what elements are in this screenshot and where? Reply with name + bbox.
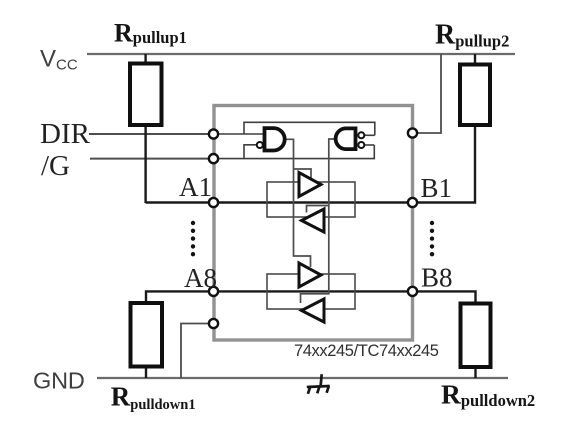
pin A1 bbox=[209, 198, 218, 207]
resistor Rpullup2 bbox=[460, 65, 490, 126]
wire enable line from G2 (right control) bbox=[301, 139, 335, 303]
wire /G riser to gate G1 input bbox=[244, 145, 256, 159]
resistor Rpulldown2 bbox=[461, 304, 491, 368]
svg-text:A8: A8 bbox=[184, 263, 217, 293]
svg-text:B8: B8 bbox=[421, 263, 453, 293]
gate G2 input bubble bottom bbox=[358, 142, 364, 148]
svg-text:Rpullup1: Rpullup1 bbox=[114, 18, 187, 47]
wire /G input bbox=[90, 158, 214, 160]
svg-text:B1: B1 bbox=[421, 173, 453, 203]
wire enable line from G1 (left control) bbox=[285, 139, 311, 267]
svg-text:VCC: VCC bbox=[40, 46, 78, 74]
pin DIR right bbox=[408, 128, 417, 137]
buffer 8A (A to B) bbox=[299, 263, 321, 287]
wire GND rail bbox=[97, 377, 508, 379]
wire DIR pin right tied to VCC bbox=[412, 54, 441, 133]
svg-text:A1: A1 bbox=[179, 172, 212, 202]
wire GND pin to ground rail bbox=[181, 324, 213, 379]
pin B1 bbox=[408, 198, 417, 207]
buffer 1B (B to A) bbox=[302, 209, 325, 232]
svg-text:DIR: DIR bbox=[40, 118, 91, 150]
svg-text:GND: GND bbox=[33, 368, 85, 394]
ellipsis dots B side bbox=[430, 221, 434, 257]
IC U1 74xx245 outline bbox=[214, 106, 413, 341]
svg-text:Rpullup2: Rpullup2 bbox=[435, 20, 509, 51]
gate G1 input bubble bbox=[257, 142, 263, 148]
resistor Rpulldown1 bbox=[131, 303, 163, 367]
wire node A8 bbox=[146, 291, 413, 378]
wire enable branch to buffer 1B bbox=[307, 206, 329, 213]
wire DIR pin to gate G1 input bbox=[214, 133, 265, 135]
wire node A1 bbox=[146, 201, 413, 203]
gate G2 AND right mirrored bbox=[336, 128, 356, 149]
wire DIR routing top bbox=[244, 122, 375, 135]
pin A8 bbox=[209, 287, 218, 296]
buffer 8B (B to A) bbox=[302, 299, 325, 322]
pin GND bbox=[209, 319, 218, 328]
buffer 1A (A to B) bbox=[299, 173, 321, 197]
wire node B1 to Rpullup2 bbox=[413, 54, 476, 203]
gate G1 AND left bbox=[265, 128, 285, 150]
wire node B8 to Rpulldown2 bbox=[413, 291, 476, 378]
resistor Rpullup1 bbox=[130, 64, 162, 126]
ground symbol bbox=[307, 374, 330, 394]
svg-text:Rpulldown2: Rpulldown2 bbox=[441, 378, 535, 410]
wire VCC rail bbox=[87, 53, 515, 55]
buffer cell 8 box bbox=[267, 274, 355, 309]
pin DIR left bbox=[209, 129, 218, 138]
wire enable branch to buffer 1A bbox=[294, 169, 312, 179]
wire gate G2 input stubs bbox=[365, 134, 375, 136]
svg-text:74xx245/TC74xx245: 74xx245/TC74xx245 bbox=[294, 342, 439, 360]
buffer cell 1 box bbox=[267, 182, 355, 217]
wire DIR input bbox=[89, 133, 214, 135]
gate G2 input bubble top bbox=[358, 132, 364, 138]
pin B8 bbox=[408, 287, 417, 296]
svg-text:Rpulldown1: Rpulldown1 bbox=[111, 381, 196, 413]
wire /G routing bottom bbox=[214, 145, 374, 159]
wire Rpullup1 to node A1 bbox=[144, 54, 146, 203]
ellipsis dots A side bbox=[191, 221, 195, 257]
svg-text:/G: /G bbox=[41, 150, 70, 182]
pin /G left bbox=[209, 154, 218, 163]
